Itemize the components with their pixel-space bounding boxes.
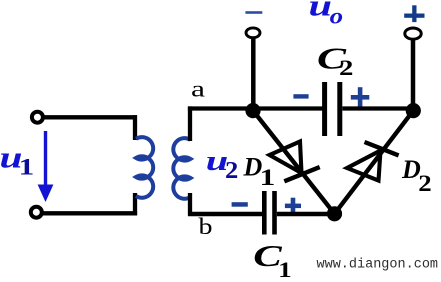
wire secondary bottom stub: [188, 193, 192, 216]
label C1: [253, 238, 292, 282]
label plus output polarity: [404, 5, 424, 22]
wire top-left horizontal: [43, 115, 137, 119]
source arrow u1: [38, 131, 54, 202]
wire secondary top stub: [188, 106, 192, 141]
wire bottom-left horizontal: [41, 211, 137, 215]
capacitor C1: [262, 191, 277, 235]
svg-text:2: 2: [418, 171, 431, 197]
node a label: [191, 77, 205, 102]
wire top horizontal left of C2: [188, 106, 323, 110]
label plus C2 polarity: [351, 87, 370, 107]
svg-text:2: 2: [225, 157, 238, 184]
wire top horizontal right of C2: [342, 106, 413, 110]
wire bottom horizontal right of C1: [277, 212, 335, 216]
wire output minus vertical: [251, 39, 256, 111]
label D1: [243, 152, 276, 190]
wire diagonal D2 branch: [335, 111, 414, 214]
capacitor C2: [322, 82, 342, 136]
junction dot node a-prime: [245, 103, 260, 118]
label u2: [206, 146, 239, 184]
label uo: [309, 0, 344, 29]
label u1: [0, 140, 34, 181]
label plus C1 polarity: [285, 198, 301, 214]
wire bottom horizontal left of C1: [188, 212, 263, 216]
svg-text:www.diangon.com: www.diangon.com: [317, 258, 439, 273]
svg-text:1: 1: [260, 165, 276, 190]
diode D2: [347, 142, 399, 181]
label minus C1 polarity: [232, 202, 248, 207]
wire diagonal D1 branch: [253, 111, 335, 214]
transformer primary winding L1: [136, 137, 153, 198]
svg-text:1: 1: [278, 257, 292, 282]
svg-text:2: 2: [339, 55, 353, 80]
wire primary bottom stub: [133, 193, 137, 215]
terminal T1 top-left input: [32, 112, 43, 123]
wire output plus vertical: [411, 40, 416, 111]
label minus C2 polarity: [293, 94, 308, 98]
transformer secondary winding L2: [173, 138, 190, 199]
diode D1: [270, 142, 320, 182]
junction dot bottom node: [327, 206, 342, 221]
label D2: [401, 155, 432, 197]
terminal T4 output plus: [405, 28, 421, 39]
svg-text:1: 1: [19, 155, 35, 181]
svg-text:a: a: [191, 77, 205, 102]
terminal T3 output minus: [246, 28, 260, 38]
node b label: [199, 214, 213, 239]
label minus output polarity: [245, 11, 262, 14]
terminal T2 bottom-left input: [31, 207, 42, 218]
label C2: [317, 41, 353, 81]
svg-text:u: u: [309, 0, 333, 22]
junction dot cathode node of D2: [406, 103, 421, 118]
watermark www.diangon.com: [317, 258, 439, 273]
wire primary top stub: [133, 115, 137, 140]
svg-text:b: b: [199, 214, 213, 239]
svg-text:o: o: [330, 4, 344, 29]
